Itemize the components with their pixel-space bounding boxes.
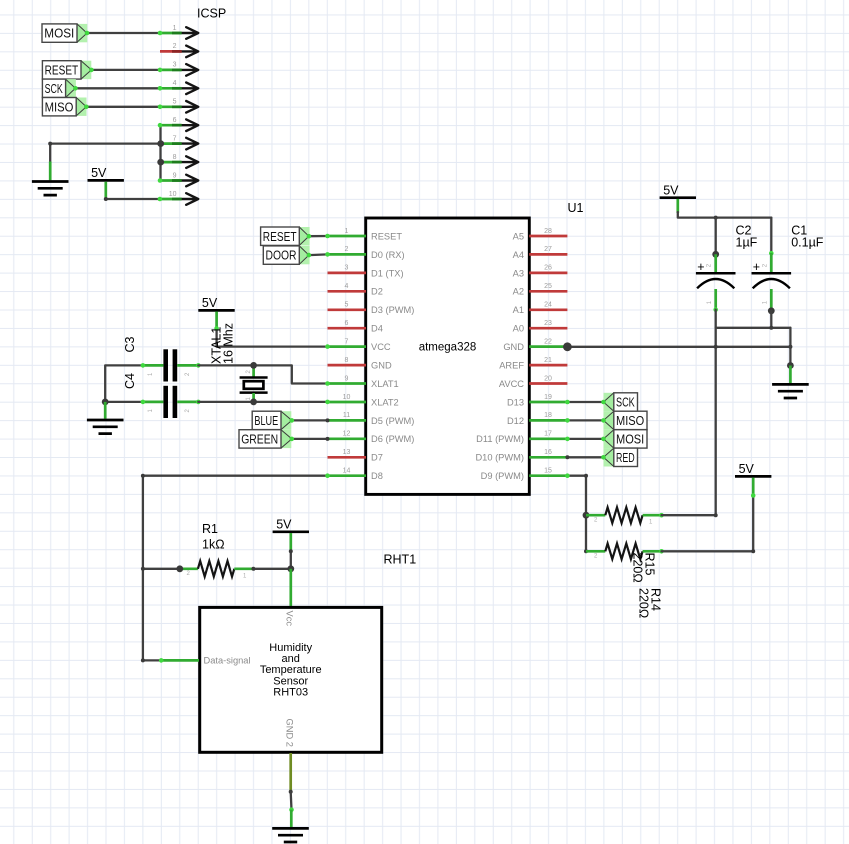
svg-text:MOSI: MOSI	[44, 26, 74, 41]
svg-text:D13: D13	[507, 397, 524, 407]
U1 pin 10 endpoint dot	[325, 400, 330, 405]
svg-text:3: 3	[345, 265, 349, 272]
U1 pin 18 (D12) lead	[529, 419, 567, 422]
svg-text:4: 4	[173, 80, 177, 87]
svg-text:23: 23	[544, 320, 552, 327]
wire corner dot	[48, 142, 52, 146]
svg-text:9: 9	[345, 375, 349, 382]
wire crystal to U1 pin 10 XLAT2	[254, 401, 328, 403]
ICSP pin 1 lead	[160, 32, 182, 35]
wire C1 bottom to rail	[770, 311, 772, 328]
wire down to C2 pin 2	[715, 218, 717, 255]
svg-text:5V: 5V	[91, 166, 107, 180]
5V supply (ICSP)	[88, 166, 124, 180]
svg-text:26: 26	[544, 265, 552, 272]
5V pin stub	[289, 533, 292, 550]
wire C3 left to C4 left	[105, 365, 143, 402]
wire ICSP pins 6-9 vertical bus	[159, 125, 161, 180]
C3 left endpoint dot	[141, 363, 146, 368]
resistor R15 left lead	[586, 550, 605, 553]
svg-text:1kΩ: 1kΩ	[202, 538, 225, 552]
MISO flag apex dot	[84, 105, 89, 110]
wire U1 pin 17 to MOSI flag	[567, 438, 603, 440]
svg-text:16: 16	[544, 449, 552, 456]
U1 pin 11 (D5 (PWM)) lead	[328, 419, 367, 422]
capacitor C4 left lead	[143, 401, 164, 404]
U1 pin 26 (A3) lead	[529, 272, 567, 275]
BLUE flag apex dot	[290, 418, 295, 423]
ICSP pin 5 lead endpoint dot	[158, 105, 163, 110]
U1 pin 18 endpoint dot	[565, 418, 570, 423]
svg-text:10: 10	[169, 191, 177, 198]
ICSP pin 5 lead	[160, 105, 182, 108]
svg-text:AREF: AREF	[499, 361, 524, 371]
U1 pin 7 endpoint dot	[325, 344, 330, 349]
svg-text:0.1µF: 0.1µF	[791, 236, 824, 250]
svg-text:20: 20	[544, 375, 552, 382]
svg-text:RESET: RESET	[371, 231, 402, 241]
ICSP pin 3 arrow	[182, 64, 199, 76]
5V pin stub	[104, 182, 107, 199]
ICSP pin 6 lead endpoint dot	[158, 123, 163, 128]
svg-text:6: 6	[345, 320, 349, 327]
svg-text:D1 (TX): D1 (TX)	[371, 268, 404, 278]
svg-text:A1: A1	[513, 305, 524, 315]
U1 pin 11 endpoint dot	[326, 418, 330, 422]
svg-text:D0 (RX): D0 (RX)	[371, 250, 405, 260]
svg-text:5V: 5V	[739, 462, 755, 476]
svg-text:R1: R1	[202, 522, 218, 536]
svg-text:XLAT2: XLAT2	[371, 397, 399, 407]
svg-text:GND 2: GND 2	[285, 719, 295, 747]
svg-text:5: 5	[173, 99, 177, 106]
resistor R1 right lead	[234, 567, 252, 570]
capacitor C2 top plate	[696, 272, 736, 275]
svg-text:24: 24	[544, 302, 552, 309]
ICSP pin 9 lead endpoint dot	[158, 178, 163, 183]
U1 pin 4 (D2) lead	[328, 290, 367, 293]
5V pin stub	[752, 478, 755, 496]
svg-text:D7: D7	[371, 453, 383, 463]
capacitor C1 top plate	[752, 272, 792, 275]
ground (decoupling caps)	[772, 384, 809, 398]
wire 5V to Vcc node	[290, 551, 292, 569]
capacitor C1 curved plate	[753, 279, 790, 288]
junction ICSP pin 7	[157, 140, 164, 147]
junction with GND wire	[788, 345, 792, 349]
ICSP pin 8 lead	[160, 161, 182, 164]
5V stub endpoint dot	[751, 493, 756, 498]
junction C1 bottom	[768, 307, 775, 314]
U1 pin 15 endpoint dot	[565, 473, 570, 478]
wire U1 pin 19 to SCK flag	[567, 401, 603, 403]
U1 pin 24 (A1) lead	[529, 308, 567, 311]
U1 pin 22 (GND) lead	[529, 345, 567, 348]
wire rail down to ground	[789, 328, 791, 366]
U1 pin 16 endpoint dot	[565, 455, 569, 459]
junction R15 pin 2	[584, 549, 588, 553]
U1 pin 19 endpoint dot	[565, 400, 570, 405]
svg-text:D11 (PWM): D11 (PWM)	[476, 434, 524, 444]
svg-text:MOSI: MOSI	[616, 432, 644, 447]
wire endpoint dot	[289, 549, 293, 553]
wire corner dot	[141, 474, 145, 478]
U1 pin 17 endpoint dot	[565, 437, 570, 442]
svg-text:8: 8	[173, 154, 177, 161]
MOSI flag apex dot	[85, 31, 90, 36]
ICSP pin 8 arrow	[182, 156, 199, 168]
resistor R1 left lead	[180, 567, 198, 570]
U1 pin 20 (AVCC) lead	[529, 382, 567, 385]
C1 top endpoint dot	[769, 251, 774, 256]
U1 pin 28 (A5) lead	[529, 235, 567, 238]
svg-text:D6 (PWM): D6 (PWM)	[371, 434, 414, 444]
wire endpoint dot	[714, 513, 718, 517]
wire D8 net to R1 pin 2	[143, 568, 180, 570]
svg-text:C4: C4	[123, 373, 137, 389]
svg-text:17: 17	[544, 431, 552, 438]
wire down to C1 pin 2	[770, 218, 772, 254]
wire DOOR flag to U1 pin 2	[309, 253, 328, 256]
U1 pin 14 endpoint dot	[325, 473, 330, 478]
capacitor C2 curved plate	[697, 279, 734, 288]
ground pin stub (crystal caps)	[104, 402, 107, 419]
MISO flag apex dot	[601, 418, 606, 423]
U1 pin 1 (RESET) lead	[328, 235, 367, 238]
capacitor C2 bottom lead	[714, 289, 717, 310]
wire endpoint dot	[104, 197, 108, 201]
wire RESET flag to ICSP pin 3	[91, 69, 160, 71]
ICSP pin 6 arrow	[182, 119, 199, 131]
svg-text:D8: D8	[371, 471, 383, 481]
RHT1 GND pin endpoint dot	[289, 790, 293, 794]
U1 pin 17 (D11 (PWM)) lead	[529, 437, 567, 440]
RHT1 data pin endpoint dot	[159, 658, 164, 663]
svg-text:C3: C3	[123, 336, 137, 352]
ICSP pin 7 lead	[160, 142, 182, 145]
net flag RED (U1 pin 16)	[604, 448, 638, 466]
svg-text:XTAL116 Mhz: XTAL116 Mhz	[210, 323, 236, 364]
ground pin stub (decoupling caps)	[789, 366, 792, 384]
svg-text:Data-signal: Data-signal	[204, 656, 251, 666]
svg-text:U1: U1	[568, 201, 584, 215]
svg-text:5V: 5V	[202, 296, 218, 310]
ground (crystal caps)	[87, 420, 124, 434]
U1 pin 2 endpoint dot	[325, 252, 330, 257]
C4 right endpoint dot	[196, 400, 201, 405]
net flag MOSI (U1 pin 17)	[604, 430, 648, 448]
junction on rail	[769, 326, 773, 330]
U1 pin 14 (D8) lead	[328, 474, 367, 477]
net flag RESET (ICSP pin 3)	[42, 61, 91, 79]
ICSP pin 3 lead endpoint dot	[158, 68, 163, 73]
svg-text:28: 28	[544, 228, 552, 235]
svg-text:1: 1	[345, 228, 349, 235]
RESET flag apex dot	[89, 68, 94, 73]
svg-text:10: 10	[343, 394, 351, 401]
capacitor C4 right lead	[177, 401, 198, 404]
ICSP pin 3 lead	[160, 69, 182, 72]
svg-text:8: 8	[345, 357, 349, 364]
DOOR flag apex dot	[307, 253, 312, 258]
svg-text:5V: 5V	[276, 517, 292, 531]
wire MISO flag to ICSP pin 5	[86, 106, 160, 108]
wire endpoint dot	[289, 807, 294, 812]
wire U1 pin 16 to RED flag	[567, 456, 603, 458]
net flag GREEN (U1 pin 12)	[239, 430, 292, 448]
svg-text:4: 4	[345, 283, 349, 290]
resistor R14 left lead	[586, 514, 605, 517]
wire U1 pin 15 D9 to R14/R15	[567, 476, 586, 552]
svg-text:A5: A5	[513, 231, 524, 241]
capacitor C1 top lead	[770, 253, 773, 273]
wire crystal to U1 pin 9 XLAT1	[254, 365, 328, 383]
svg-text:5V: 5V	[663, 183, 679, 197]
junction crystal top	[250, 362, 257, 369]
ICSP pin 1 lead endpoint dot	[158, 31, 163, 36]
sensor RHT1 body	[200, 607, 382, 752]
svg-text:A2: A2	[513, 287, 524, 297]
C3 right endpoint dot	[196, 363, 201, 368]
junction R1/5V/RHT1 Vcc	[287, 565, 294, 572]
svg-text:A3: A3	[513, 268, 524, 278]
wire U1 pin 14 D8 to RHT1 data-signal	[143, 476, 328, 661]
junction dot	[714, 345, 718, 349]
svg-text:Vcc: Vcc	[284, 611, 294, 627]
svg-text:21: 21	[544, 357, 552, 364]
svg-text:6: 6	[173, 117, 177, 124]
U1 pin 27 (A4) lead	[529, 253, 567, 256]
junction R1 pin 2	[176, 565, 183, 572]
crystal XTAL1 body	[240, 376, 268, 379]
svg-text:27: 27	[544, 246, 552, 253]
R1 pin 1 endpoint dot	[251, 567, 255, 571]
svg-text:A4: A4	[513, 250, 524, 260]
ICSP pin 5 arrow	[182, 101, 199, 113]
ICSP pin 10 lead	[160, 198, 182, 201]
resistor R15 220 ohm	[605, 544, 642, 560]
5V stub endpoint dot	[214, 326, 219, 331]
svg-text:18: 18	[544, 412, 552, 419]
junction crystal bottom	[250, 399, 257, 406]
C4 left endpoint dot	[141, 400, 146, 405]
5V supply (R15)	[735, 462, 771, 476]
svg-text:AVCC: AVCC	[499, 379, 524, 389]
svg-text:atmega328: atmega328	[419, 342, 477, 354]
svg-text:7: 7	[345, 338, 349, 345]
C2 bottom endpoint dot	[713, 307, 718, 312]
RHT1 GND pin leg	[289, 753, 292, 792]
svg-text:+: +	[697, 260, 704, 274]
wire U1 pin 22 GND to ground rail	[567, 346, 790, 348]
R14 pin 1 endpoint dot	[659, 513, 664, 518]
ICSP pin 2 arrow	[182, 46, 199, 58]
U1 pin 16 (D10 (PWM)) lead	[529, 456, 567, 459]
wire U1 pin 18 to MISO flag	[567, 419, 603, 421]
ICSP pin 9 arrow	[182, 175, 199, 187]
ICSP pin 7 arrow	[182, 138, 199, 150]
U1 pin 23 (A0) lead	[529, 327, 567, 330]
junction C2 top	[712, 251, 719, 258]
U1 pin 3 (D1 (TX)) lead	[328, 272, 367, 275]
wire 5V to C2/C1 tops	[678, 212, 772, 218]
ICSP pin 4 lead	[160, 87, 182, 90]
svg-text:BLUE: BLUE	[254, 413, 278, 428]
wire GREEN flag to U1 pin 12	[292, 438, 328, 440]
RESET flag apex dot	[307, 234, 312, 239]
net flag DOOR (U1 pin 2)	[263, 246, 309, 264]
crystal XTAL1 top lead	[252, 365, 255, 377]
U1 pin 12 (D6 (PWM)) lead	[328, 437, 367, 440]
wire corner dot	[584, 474, 588, 478]
wire C3 to crystal pin 2	[198, 364, 253, 366]
svg-text:DOOR: DOOR	[266, 248, 297, 263]
crystal XTAL1 bottom lead	[252, 393, 255, 402]
U1 pin 2 (D0 (RX)) lead	[328, 253, 367, 256]
svg-text:SCK: SCK	[616, 395, 635, 410]
svg-text:D12: D12	[507, 416, 524, 426]
U1 pin 9 endpoint dot	[325, 381, 330, 386]
wire SCK flag to ICSP pin 4	[75, 87, 160, 89]
svg-text:GND: GND	[371, 361, 392, 371]
net flag MISO (U1 pin 18)	[604, 411, 648, 429]
capacitor C3 plates	[163, 349, 168, 381]
U1 pin 6 (D4) lead	[328, 327, 367, 330]
svg-text:GND: GND	[503, 342, 524, 352]
ICSP pin 1 arrow	[182, 27, 199, 39]
U1 pin 12 endpoint dot	[326, 437, 330, 441]
svg-text:2: 2	[345, 246, 349, 253]
svg-text:D5 (PWM): D5 (PWM)	[371, 416, 414, 426]
capacitor C2 top lead	[714, 254, 717, 272]
U1 pin 7 (VCC) lead	[328, 345, 367, 348]
GREEN flag apex dot	[290, 437, 295, 442]
U1 pin 25 (A2) lead	[529, 290, 567, 293]
svg-text:19: 19	[544, 394, 552, 401]
U1 pin 13 (D7) lead	[328, 456, 367, 459]
capacitor C3 left lead	[143, 364, 164, 367]
svg-text:XLAT1: XLAT1	[371, 379, 399, 389]
ICSP pin 6 lead	[160, 124, 182, 127]
svg-text:D10 (PWM): D10 (PWM)	[475, 453, 524, 463]
wire C2 bottom rail	[716, 310, 791, 328]
capacitor C1 bottom lead	[770, 289, 773, 311]
ICSP pin 4 arrow	[182, 83, 199, 95]
svg-text:5: 5	[345, 302, 349, 309]
svg-text:ICSP: ICSP	[197, 7, 226, 21]
svg-text:1µF: 1µF	[736, 236, 758, 250]
ICSP pin 10 arrow	[182, 193, 199, 205]
svg-text:22: 22	[544, 338, 552, 345]
svg-text:RESET: RESET	[45, 63, 79, 78]
svg-text:3: 3	[173, 62, 177, 69]
U1 pin 21 (AREF) lead	[529, 364, 567, 367]
svg-text:15: 15	[544, 468, 552, 475]
wire C4 to crystal pin 1	[198, 401, 253, 403]
svg-text:RESET: RESET	[263, 229, 297, 244]
resistor R1 1k ohm	[198, 561, 234, 577]
svg-text:14: 14	[343, 468, 351, 475]
svg-text:RHT1: RHT1	[384, 553, 417, 567]
MOSI flag apex dot	[601, 437, 606, 442]
SCK flag apex dot	[601, 400, 606, 405]
wire MOSI flag to ICSP pin 1	[87, 32, 160, 34]
U1 pin 19 (D13) lead	[529, 401, 567, 404]
junction C3/C4/ground	[102, 399, 109, 406]
U1 pin 5 (D3 (PWM)) lead	[328, 308, 367, 311]
svg-text:25: 25	[544, 283, 552, 290]
svg-text:MISO: MISO	[45, 99, 74, 114]
junction above ground	[787, 362, 794, 369]
ICSP pin 10 lead endpoint dot	[158, 197, 163, 202]
U1 pin 9 (XLAT1) lead	[328, 382, 367, 385]
capacitor C3 right lead	[177, 364, 198, 367]
svg-text:12: 12	[343, 431, 351, 438]
wire corner dot	[751, 549, 755, 553]
net flag SCK (U1 pin 19)	[604, 393, 638, 411]
5V supply (RHT1 Vcc)	[273, 517, 309, 531]
ground pin stub (ICSP ground)	[49, 162, 52, 181]
svg-text:2: 2	[173, 43, 177, 50]
svg-text:SCK: SCK	[45, 81, 63, 96]
wire R15 pin 1 to 5V	[662, 496, 754, 552]
svg-text:+: +	[753, 260, 760, 274]
wire BLUE flag to U1 pin 11	[292, 419, 328, 421]
wire R14 pin 1 to GND net	[662, 514, 716, 516]
svg-text:11: 11	[343, 412, 350, 419]
junction U1 pin 22	[563, 342, 572, 351]
svg-text:GREEN: GREEN	[241, 432, 278, 447]
5V supply (VCC)	[198, 296, 234, 310]
net flag BLUE (U1 pin 11)	[252, 411, 292, 429]
capacitor C4 plates	[163, 386, 168, 418]
wire corner dot	[141, 658, 145, 662]
ICSP pin 9 lead	[160, 179, 182, 182]
ICSP pin 4 lead endpoint dot	[158, 86, 163, 91]
U1 pin 10 (XLAT2) lead	[328, 401, 367, 404]
wire junction dot	[141, 567, 145, 571]
5V pin stub	[676, 199, 679, 213]
net flag SCK (ICSP pin 4)	[42, 79, 76, 97]
RHT1 data-signal pin leg	[161, 659, 199, 662]
svg-text:VCC: VCC	[371, 342, 391, 352]
junction C2 top rail	[714, 216, 718, 220]
U1 pin 15 (D9 (PWM)) lead	[529, 474, 567, 477]
5V pin stub	[215, 312, 218, 329]
ground (RHT1)	[272, 828, 309, 842]
svg-text:RED: RED	[616, 450, 635, 465]
wire RESET flag to U1 pin 1	[309, 235, 328, 237]
RED flag apex dot	[601, 455, 606, 460]
svg-text:1: 1	[173, 25, 177, 32]
RHT1 Vcc pin leg	[289, 569, 292, 606]
svg-text:7: 7	[173, 135, 177, 142]
ICSP pin 2 lead (unconnected, red)	[160, 50, 182, 53]
ground (ICSP)	[32, 182, 69, 196]
svg-text:D3 (PWM): D3 (PWM)	[371, 305, 414, 315]
ground pin stub (RHT1)	[290, 810, 293, 827]
wire RHT1 GND to ground	[290, 792, 293, 810]
net flag MISO (ICSP pin 5)	[42, 98, 86, 116]
wire R1 pin 1 to 5V/Vcc node	[253, 568, 290, 570]
SCK flag apex dot	[73, 86, 78, 91]
5V supply (decoupling caps)	[660, 183, 696, 197]
svg-text:A0: A0	[513, 324, 524, 334]
U1 pin 8 (GND) lead	[328, 364, 367, 367]
wire down to ground symbol	[49, 144, 51, 162]
svg-text:D9 (PWM): D9 (PWM)	[481, 471, 524, 481]
resistor R14 right lead	[643, 514, 662, 517]
